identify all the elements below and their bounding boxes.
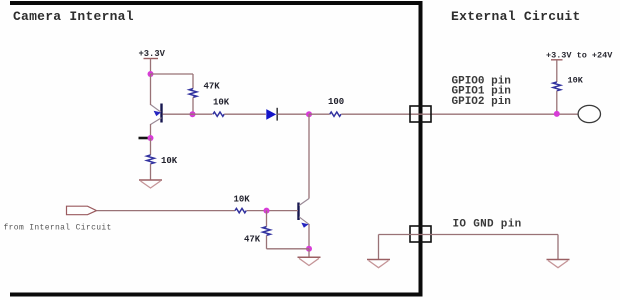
wire (266, 211, 268, 227)
svg-text:External Circuit: External Circuit (451, 9, 581, 24)
wire (378, 235, 380, 260)
svg-text:10K: 10K (161, 156, 178, 166)
svg-text:IO GND pin: IO GND pin (453, 219, 522, 231)
wire (308, 249, 310, 257)
node (306, 111, 312, 117)
wire (557, 235, 559, 260)
node (306, 246, 312, 252)
wire (278, 113, 310, 115)
resistor 100 (horizontal) (330, 112, 341, 116)
svg-text:GPIO2 pin: GPIO2 pin (452, 96, 511, 108)
wire (341, 113, 578, 115)
ground (367, 260, 390, 268)
stub to internal circuit (139, 137, 150, 140)
wire (97, 210, 236, 212)
power symbol +3.3V to +24V (546, 51, 613, 61)
transistor Q2 (NPN) (299, 199, 310, 228)
svg-text:+3.3V: +3.3V (139, 49, 166, 59)
wire (150, 138, 152, 155)
svg-text:47K: 47K (244, 235, 261, 245)
svg-text:10K: 10K (234, 195, 251, 205)
ground (298, 257, 321, 265)
wire (247, 210, 299, 212)
ground (547, 260, 570, 268)
node (148, 135, 154, 141)
wire (308, 114, 310, 198)
wire (150, 124, 152, 138)
port symbol: from Internal Circuit (67, 206, 97, 215)
wire (192, 74, 194, 89)
svg-text:from Internal Circuit: from Internal Circuit (4, 224, 112, 233)
wire (150, 59, 152, 75)
node (190, 111, 196, 117)
resistor 10K (vertical) (147, 155, 155, 164)
wire (556, 91, 558, 114)
node (554, 111, 560, 117)
camera internal box border (10, 3, 421, 295)
resistor 10K (horizontal) (235, 208, 246, 212)
resistor 10K (vertical, pull-up) (553, 82, 561, 91)
resistor 47K (vertical) (189, 89, 197, 98)
resistor 47K (vertical) (263, 227, 271, 236)
wire (150, 74, 152, 105)
svg-text:+3.3V to +24V: +3.3V to +24V (546, 51, 613, 61)
pin name labels GPIO0/1/2 (452, 76, 511, 109)
wire (379, 234, 559, 236)
wire (224, 113, 266, 115)
svg-text:Camera Internal: Camera Internal (13, 9, 134, 24)
transistor Q1 (PNP) (151, 104, 193, 125)
connector pin square (GPIO) (410, 106, 431, 122)
wire (266, 235, 268, 248)
node (148, 71, 154, 77)
wire (308, 224, 310, 249)
wire (267, 248, 310, 250)
svg-text:10K: 10K (568, 76, 584, 86)
svg-text:10K: 10K (213, 98, 230, 108)
svg-text:100: 100 (328, 97, 344, 107)
resistor 10K (horizontal) (213, 112, 224, 116)
wire (556, 60, 558, 82)
node (264, 208, 270, 214)
wire (309, 113, 330, 115)
power symbol +3.3V (139, 49, 166, 59)
wire (192, 97, 194, 114)
svg-text:47K: 47K (204, 82, 221, 92)
diode D1 (266, 108, 277, 121)
wire (151, 73, 194, 75)
wire (193, 113, 213, 115)
wire (150, 164, 152, 180)
external terminal (circle) (578, 105, 600, 122)
connector pin square (IO GND) (410, 226, 431, 242)
ground (139, 180, 162, 188)
